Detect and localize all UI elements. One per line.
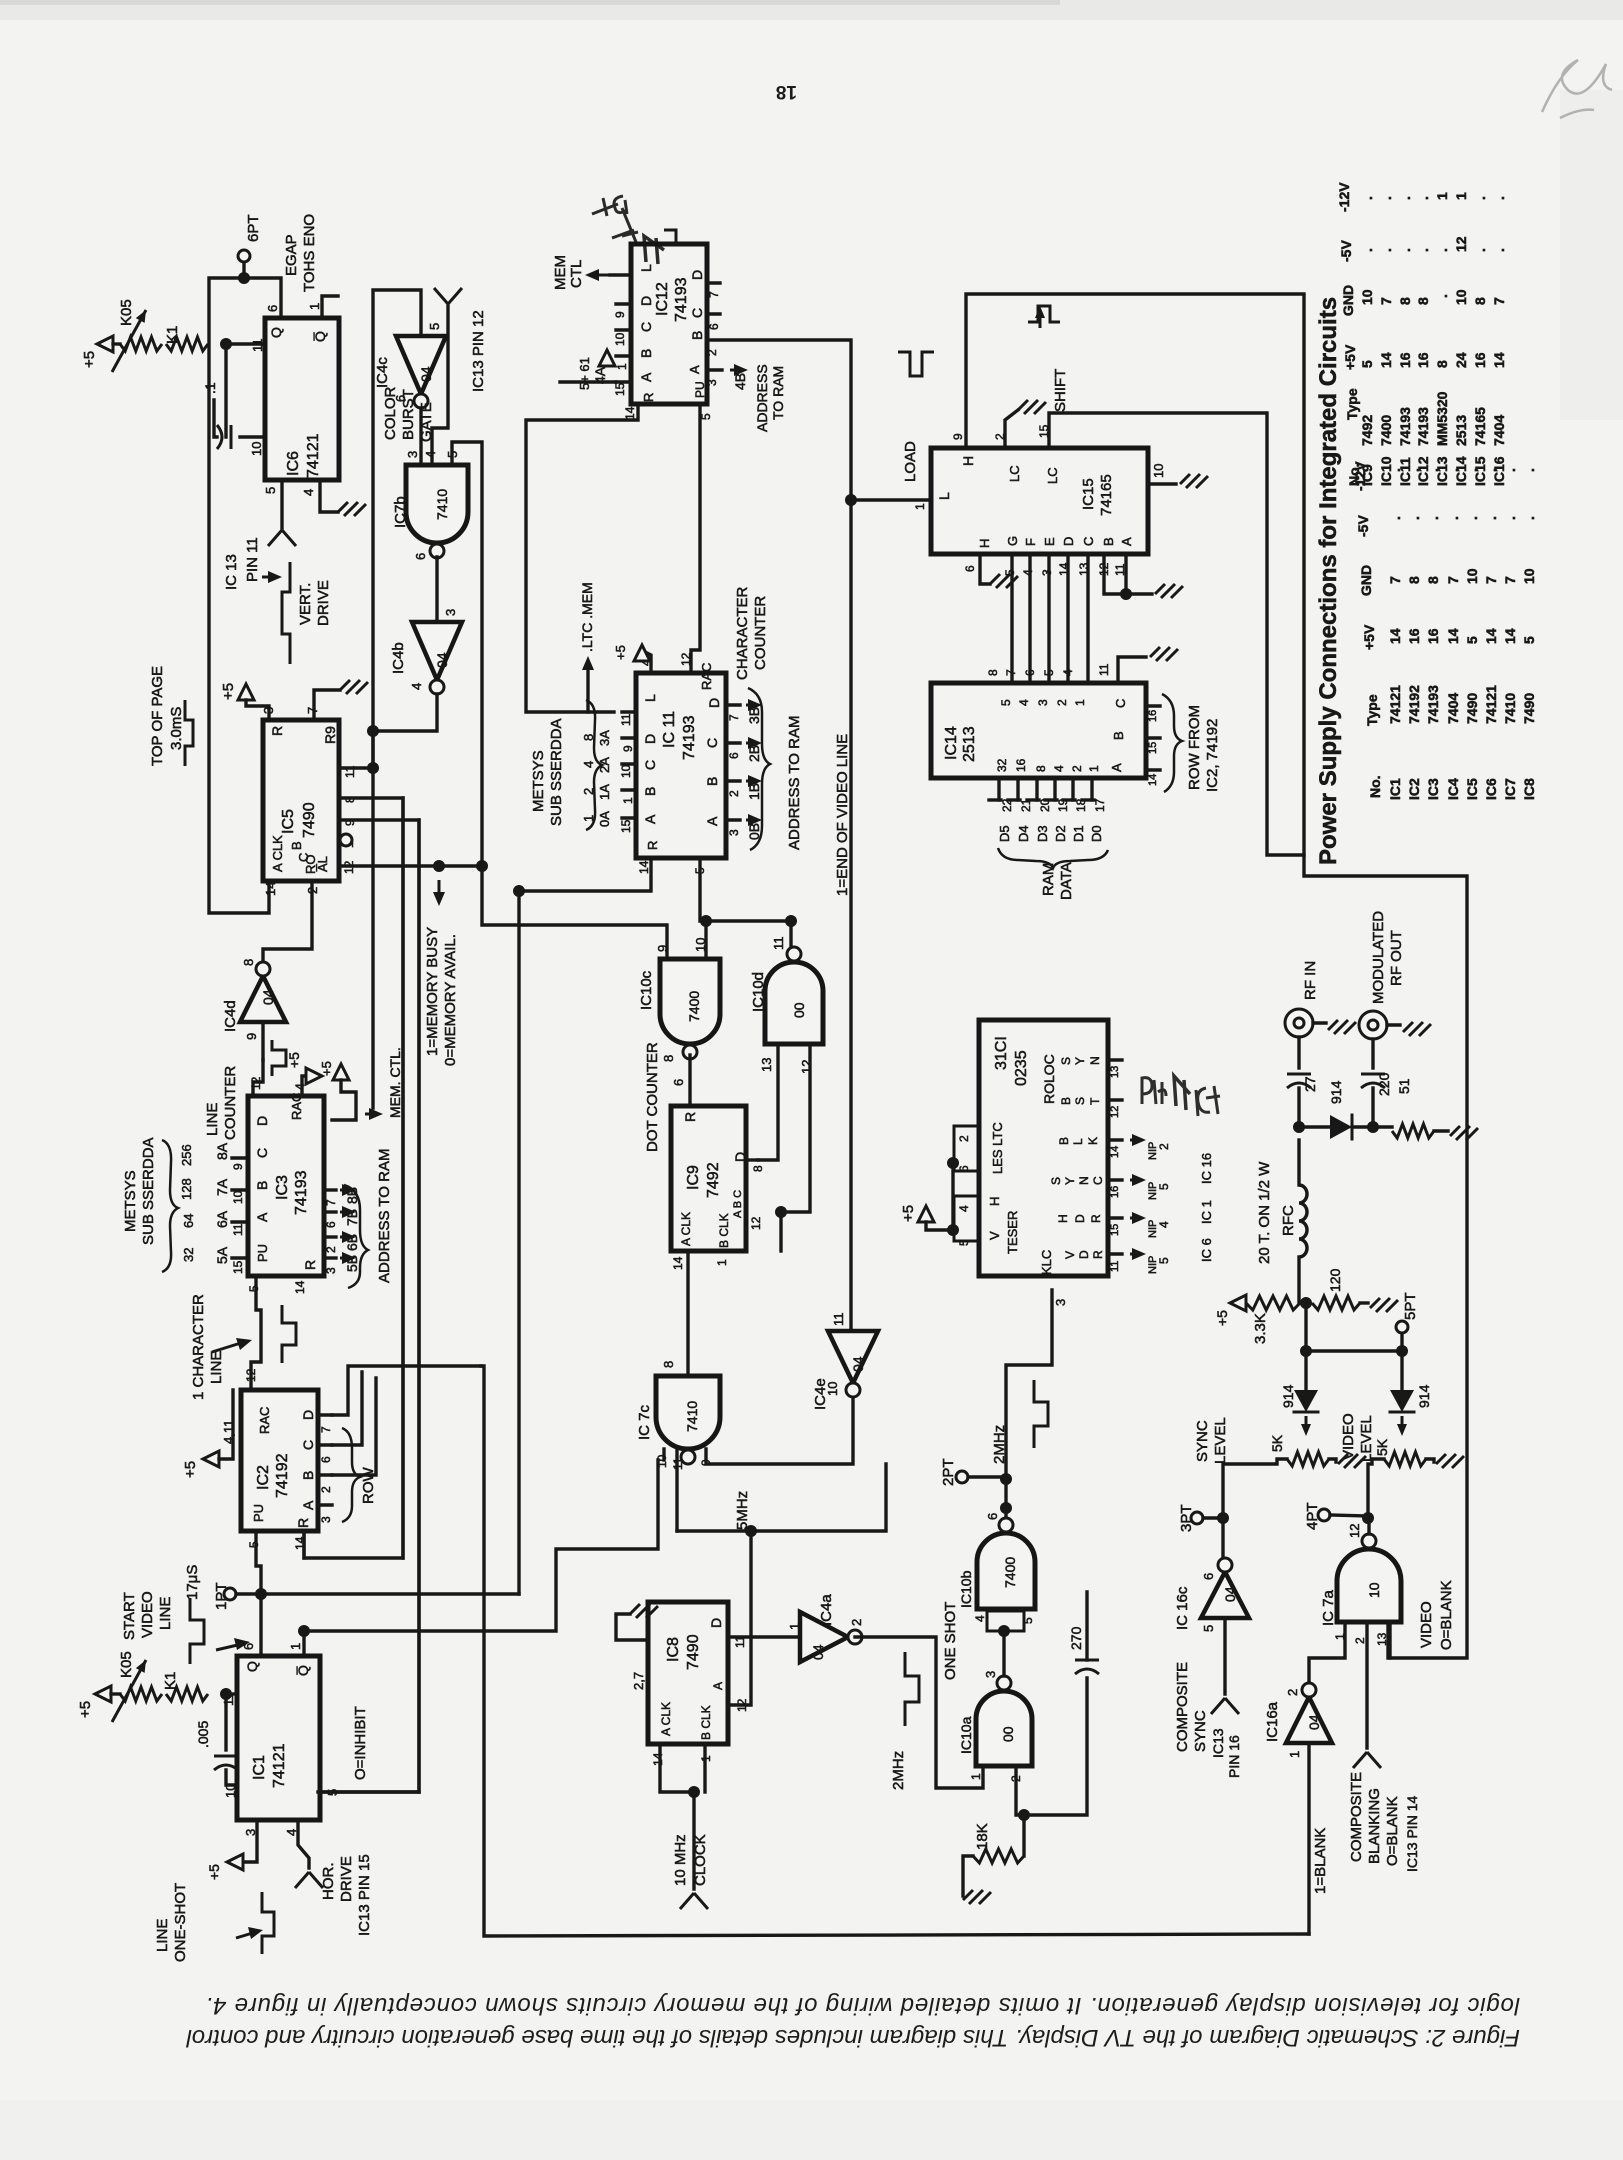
svg-text:9: 9	[231, 1163, 245, 1170]
svg-text:A̅L: A̅L	[315, 856, 330, 872]
svg-text:A: A	[1119, 537, 1134, 546]
inverter IC4d	[240, 976, 286, 1022]
svg-text:10: 10	[1366, 1582, 1382, 1598]
svg-text:IC1: IC1	[1387, 778, 1403, 800]
svg-text:7: 7	[305, 707, 320, 714]
svg-text:2: 2	[727, 790, 741, 797]
svg-text:14: 14	[1445, 628, 1461, 644]
brace RAM DATA	[998, 848, 1108, 868]
svg-text:51: 51	[1396, 1078, 1412, 1094]
svg-text:11: 11	[1097, 663, 1111, 676]
svg-text:13: 13	[759, 1058, 774, 1072]
svg-text:5MHz: 5MHz	[734, 1491, 751, 1530]
svg-text:5: 5	[247, 1541, 261, 1548]
test point TP1	[224, 1588, 236, 1600]
svg-text:10: 10	[249, 442, 264, 456]
svg-text:IC5: IC5	[1464, 778, 1480, 800]
svg-text:6: 6	[707, 323, 721, 330]
svg-text:B: B	[300, 1471, 316, 1480]
svg-text:A: A	[254, 1212, 270, 1222]
svg-text:1=BLANK: 1=BLANK	[1312, 1828, 1329, 1894]
svg-text:5B: 5B	[344, 1255, 360, 1272]
IC2 right pins 7 6 2 3 (ROW outputs)	[318, 1413, 332, 1416]
arrow start video line	[216, 1644, 242, 1650]
wire junction down to IC10c pin 10	[704, 921, 707, 959]
svg-text:74193: 74193	[1415, 407, 1431, 446]
svg-text:6: 6	[957, 1165, 971, 1172]
+5 stub near IC2/IC9 area	[333, 1064, 349, 1080]
svg-text:HOR.: HOR.	[320, 1863, 337, 1901]
svg-text:CTL: CTL	[568, 260, 585, 288]
svg-text:.: .	[1445, 516, 1461, 520]
inverter IC4c	[396, 336, 446, 394]
svg-text:B: B	[1057, 1137, 1071, 1145]
svg-text:8: 8	[1472, 297, 1488, 305]
svg-text:12: 12	[249, 1076, 263, 1090]
svg-text:COMPOSITE: COMPOSITE	[1348, 1772, 1365, 1862]
wire IC15 pin 9 up to LOAD line	[966, 294, 1467, 1658]
IC8 pin 12 jog wire	[728, 1637, 751, 1705]
svg-text:D: D	[1077, 1250, 1091, 1259]
brace address to RAM (IC3)	[344, 1185, 368, 1288]
svg-text:TO RAM: TO RAM	[770, 366, 786, 420]
svg-text:D: D	[642, 734, 658, 744]
resistor 1K (bottom)	[166, 1687, 208, 1701]
svg-text:.: .	[1464, 516, 1480, 520]
svg-text:IC3: IC3	[274, 1175, 291, 1200]
waveform 2MHz (left)	[905, 1652, 919, 1726]
inverter IC4a	[800, 1612, 848, 1662]
svg-text:74193: 74193	[681, 715, 698, 760]
ground loop at IC8 pins 2,7	[616, 1614, 648, 1640]
svg-text:16: 16	[1472, 352, 1488, 368]
svg-text:+5: +5	[182, 1461, 199, 1478]
svg-text:K: K	[1086, 1137, 1100, 1145]
svg-text:914: 914	[1416, 1384, 1432, 1408]
svg-text:14: 14	[1109, 1146, 1121, 1158]
svg-text:C: C	[689, 308, 705, 318]
wire pin12 bus to x=482 and down to IC10c pin 9	[439, 864, 482, 867]
svg-text:6: 6	[241, 1643, 256, 1650]
IC7a output wire to TP4 junction	[1367, 1518, 1370, 1534]
svg-text:14: 14	[293, 1280, 307, 1294]
svg-text:1: 1	[307, 303, 322, 310]
svg-text:IC7: IC7	[1502, 778, 1518, 800]
junction dot IC1 pin 11	[220, 1688, 232, 1700]
test point TP3	[1191, 1512, 1203, 1524]
+5 at IC11 pin 4	[645, 652, 651, 673]
svg-text:LINE: LINE	[157, 1597, 174, 1630]
svg-text:7400: 7400	[1002, 1557, 1018, 1588]
svg-text:12: 12	[1453, 236, 1469, 252]
waveform line one-shot with arrow	[262, 1892, 274, 1954]
svg-text:A B C: A B C	[732, 1190, 744, 1218]
svg-text:Q: Q	[244, 1661, 260, 1672]
svg-text:00: 00	[791, 1002, 807, 1018]
svg-text:RF OUT: RF OUT	[1388, 930, 1405, 986]
svg-text:1PT: 1PT	[213, 1582, 230, 1610]
svg-text:16: 16	[1406, 628, 1422, 644]
svg-text:logic for television display g: logic for television display generation.…	[205, 1992, 1520, 2019]
svg-text:D: D	[638, 296, 654, 306]
svg-text:2: 2	[993, 433, 1007, 440]
shift register IC15 74165	[931, 448, 1148, 554]
svg-text:1: 1	[1434, 192, 1450, 200]
svg-text:IC 7a: IC 7a	[1320, 1589, 1337, 1626]
svg-text:S: S	[1073, 1097, 1087, 1105]
IC12 pin 15 long wire left	[560, 380, 616, 383]
svg-text:9: 9	[951, 433, 965, 440]
svg-text:DRIVE: DRIVE	[338, 1856, 355, 1902]
svg-text:12: 12	[799, 1060, 814, 1074]
svg-text:.: .	[1425, 468, 1441, 472]
svg-text:5: 5	[699, 413, 713, 420]
wire IC15 pin 1 (L) to bus x=851	[851, 498, 931, 501]
svg-text:Q̅: Q̅	[295, 1665, 311, 1676]
IC12 pin 2 wire right then down (1=END OF VIDEO LINE bus)	[707, 340, 851, 1331]
waveform 1 character line	[282, 1305, 296, 1363]
svg-text:IC 6: IC 6	[1199, 1238, 1214, 1262]
+5 supply arrow (bottom left)	[95, 1686, 111, 1702]
svg-text:GATE: GATE	[418, 402, 435, 442]
svg-text:5A: 5A	[214, 1246, 230, 1264]
svg-text:H: H	[977, 539, 992, 548]
svg-text:K1: K1	[162, 1672, 179, 1690]
svg-text:3PT: 3PT	[1178, 1504, 1195, 1532]
svg-text:6: 6	[727, 752, 741, 759]
NAND IC7b 7410	[406, 465, 468, 543]
svg-text:16: 16	[1425, 628, 1441, 644]
svg-text:.: .	[1445, 468, 1461, 472]
svg-text:2MHz: 2MHz	[890, 1751, 907, 1790]
test point TP5	[1400, 1334, 1403, 1351]
capacitor 270 on feedback	[1024, 1678, 1087, 1815]
handwritten PIN 4 annotation	[1142, 1078, 1166, 1104]
brace system address bus left	[162, 1140, 178, 1272]
svg-text:LEVEL: LEVEL	[1212, 1417, 1229, 1464]
svg-text:8: 8	[1415, 297, 1431, 305]
svg-text:5: 5	[1201, 1625, 1216, 1632]
svg-text:4,11: 4,11	[221, 1420, 236, 1444]
svg-text:74121: 74121	[271, 1743, 288, 1788]
svg-text:.: .	[1521, 516, 1537, 520]
svg-text:B CLK: B CLK	[699, 1705, 713, 1740]
svg-text:Y: Y	[1073, 1057, 1087, 1065]
svg-text:15: 15	[231, 1260, 245, 1274]
svg-text:+5: +5	[1214, 1310, 1230, 1326]
svg-text:7: 7	[1483, 576, 1499, 584]
NAND IC10a 7400	[976, 1691, 1032, 1766]
svg-text:V: V	[987, 1231, 1002, 1240]
IC10a output wire up to IC10b pins 4,5 box	[1002, 1631, 1005, 1676]
svg-text:A CLK: A CLK	[679, 1212, 693, 1246]
svg-text:VIDEO: VIDEO	[139, 1591, 156, 1638]
svg-text:N: N	[1077, 1176, 1091, 1185]
svg-text:2,7: 2,7	[631, 1672, 646, 1690]
svg-text:1: 1	[1087, 765, 1101, 772]
IC16c input wire to COMPOSITE SYNC connector	[1223, 1618, 1226, 1694]
svg-text:8: 8	[1425, 576, 1441, 584]
svg-text:.: .	[1434, 248, 1450, 252]
svg-text:2: 2	[1353, 1637, 1367, 1644]
waveform 2MHz right	[1034, 1380, 1048, 1448]
svg-text:1 CHARACTER: 1 CHARACTER	[190, 1294, 207, 1400]
svg-text:D1: D1	[1071, 825, 1086, 842]
test point TP6	[242, 263, 245, 278]
svg-text:METSYS: METSYS	[530, 750, 547, 812]
svg-text:IC1: IC1	[251, 1755, 268, 1780]
svg-text:74193: 74193	[673, 277, 690, 322]
wire junction to IC10d pin 11	[789, 921, 792, 955]
junction dots RF mixer	[1293, 1121, 1305, 1133]
IC12 left pin stubs	[616, 302, 631, 305]
svg-text:IC8: IC8	[1521, 778, 1537, 800]
label MEM CTL with arrow (IC12 pin 11)	[585, 269, 627, 281]
svg-text:-5V: -5V	[1355, 515, 1371, 537]
row counter IC2 74192	[241, 1390, 318, 1531]
NAND IC10c 7400	[660, 959, 720, 1044]
svg-text:IC2, 74192: IC2, 74192	[1204, 719, 1221, 792]
svg-text:8: 8	[581, 734, 596, 741]
svg-text:RF IN: RF IN	[1302, 961, 1319, 1000]
svg-text:7410: 7410	[684, 1401, 700, 1432]
svg-text:MEM: MEM	[552, 255, 569, 290]
svg-text:10: 10	[693, 938, 708, 952]
svg-text:IC8: IC8	[665, 1637, 682, 1662]
svg-text:9: 9	[613, 311, 627, 318]
svg-text:18K: 18K	[974, 1823, 991, 1850]
IC12 right pins	[707, 281, 720, 284]
svg-text:9: 9	[621, 745, 635, 752]
svg-text:D4: D4	[1016, 825, 1031, 842]
svg-text:11: 11	[1109, 1261, 1121, 1272]
svg-text:+5: +5	[286, 1052, 302, 1068]
IC5 pin 9 wire to long bus x=419	[318, 820, 419, 1792]
svg-text:14: 14	[263, 882, 278, 896]
svg-text:12: 12	[749, 1216, 763, 1230]
wire junction down to diodes	[1304, 1303, 1307, 1351]
svg-text:Power Supply Connections for I: Power Supply Connections for Integrated …	[1315, 297, 1342, 865]
svg-text:11: 11	[221, 1693, 236, 1707]
IC10b pins 4/5 tie box	[987, 1611, 1024, 1631]
svg-text:11: 11	[619, 713, 633, 726]
svg-text:C: C	[254, 1148, 270, 1158]
one-shot IC1 74121	[237, 1656, 320, 1820]
svg-text:74193: 74193	[1397, 407, 1413, 446]
svg-text:1=MEMORY BUSY: 1=MEMORY BUSY	[424, 927, 441, 1056]
svg-text:1=END OF VIDEO LINE: 1=END OF VIDEO LINE	[834, 734, 851, 896]
svg-text:IC3: IC3	[1425, 778, 1441, 800]
svg-text:2B: 2B	[746, 745, 762, 762]
svg-text:D: D	[708, 1618, 724, 1628]
svg-text:16: 16	[1109, 1186, 1121, 1198]
IC4b output wire joining bus x=373	[373, 694, 437, 731]
svg-text:15: 15	[613, 382, 627, 396]
svg-text:1: 1	[581, 815, 596, 822]
svg-text:6: 6	[265, 305, 280, 312]
svg-text:ROLOC: ROLOC	[1041, 1054, 1057, 1104]
svg-text:SYNC: SYNC	[1194, 1420, 1211, 1462]
vertical bus x=373 (IC5 D to MEM CTL arrow)	[371, 731, 374, 1108]
svg-text:74193: 74193	[293, 1170, 310, 1215]
svg-text:4: 4	[973, 1615, 987, 1622]
svg-text:2513: 2513	[961, 726, 978, 762]
IC10d input wires down	[758, 1044, 778, 1160]
svg-text:IC16a: IC16a	[1264, 1701, 1281, 1742]
svg-text:7: 7	[1378, 297, 1394, 305]
svg-text:A: A	[687, 365, 702, 374]
svg-text:04: 04	[1306, 1714, 1322, 1730]
svg-text:+5: +5	[220, 683, 237, 700]
svg-text:5: 5	[445, 451, 460, 458]
svg-text:R: R	[682, 1112, 698, 1122]
connector fork IC13 PIN 12	[434, 288, 462, 304]
IC13 pin boxes 2/6 and 4/5	[954, 1126, 979, 1171]
svg-text:15: 15	[619, 819, 633, 833]
wire 5MHz junction down to IC8 pin D jog	[749, 1531, 752, 1637]
svg-text:ROW FROM: ROW FROM	[1186, 705, 1203, 790]
svg-text:7492: 7492	[1359, 415, 1375, 446]
svg-text:74121: 74121	[1387, 685, 1403, 724]
svg-text:-12V: -12V	[1336, 182, 1352, 212]
svg-text:IC10c: IC10c	[638, 970, 655, 1010]
svg-text:A: A	[711, 1682, 725, 1690]
wire TP2 junction up to IC13 CLK pin 3	[1006, 1290, 1052, 1479]
svg-text:6: 6	[324, 1221, 338, 1228]
svg-text:TOP OF PAGE: TOP OF PAGE	[149, 666, 166, 766]
svg-text:H: H	[1056, 1214, 1070, 1223]
svg-text:1: 1	[913, 503, 927, 510]
svg-text:K1: K1	[164, 326, 181, 344]
svg-text:D: D	[1073, 1214, 1087, 1223]
svg-text:5: 5	[427, 323, 442, 330]
wire RFC to 3.3K junction	[1297, 1257, 1300, 1303]
5MHz junction and label	[745, 1525, 757, 1537]
svg-text:KLC: KLC	[1039, 1250, 1054, 1275]
svg-text:8: 8	[751, 1165, 765, 1172]
IC5 pin 2 wire down to inverter IC4d	[263, 881, 312, 962]
svg-text:15: 15	[1147, 742, 1159, 754]
svg-text:IC5: IC5	[280, 809, 297, 834]
wire IC12 pin 11 stub	[610, 273, 631, 276]
svg-text:BLANKING: BLANKING	[1366, 1788, 1383, 1864]
NAND IC10b 7400	[977, 1533, 1035, 1609]
svg-text:74192: 74192	[274, 1453, 291, 1498]
svg-text:LEVEL: LEVEL	[1358, 1415, 1375, 1462]
svg-text:F: F	[1023, 538, 1038, 546]
waveform top of page pulse	[185, 700, 193, 766]
IC1 pin 3 wire to +5	[243, 1820, 257, 1862]
IC12 pin 14 wire to bus x=526 to IC11 pin L	[526, 404, 638, 712]
ground at RF OUT	[1387, 1023, 1400, 1026]
svg-text:IC12: IC12	[654, 282, 671, 316]
svg-text:64: 64	[181, 1214, 196, 1228]
IC7c pin 10 wire down-left (retrigger)	[662, 1449, 665, 1460]
svg-text:7: 7	[1004, 669, 1018, 676]
svg-text:ADDRESS TO RAM: ADDRESS TO RAM	[376, 1149, 393, 1283]
svg-text:O=BLANK: O=BLANK	[1384, 1796, 1401, 1866]
svg-text:4: 4	[1157, 1221, 1171, 1228]
IC6 pin 5 wire to VERT DRIVE connector	[280, 480, 283, 528]
svg-text:IC6: IC6	[285, 451, 302, 476]
svg-text:1: 1	[1287, 1751, 1302, 1758]
svg-text:C: C	[1113, 699, 1128, 708]
svg-text:04: 04	[850, 1356, 866, 1372]
svg-text:2: 2	[1055, 699, 1069, 706]
svg-text:6: 6	[1201, 1573, 1216, 1580]
data wires IC15 to IC14	[1010, 554, 1013, 683]
brace address to RAM (IC11)	[748, 688, 770, 850]
capacitor .005	[224, 1694, 227, 1750]
svg-text:31CI: 31CI	[993, 1036, 1010, 1070]
svg-text:5: 5	[1021, 1617, 1035, 1624]
svg-text:SHIFT: SHIFT	[1052, 369, 1069, 412]
svg-text:IC 7c: IC 7c	[636, 1404, 653, 1440]
svg-text:.: .	[1483, 516, 1499, 520]
long bus x=419 continues (O=INHIBIT)	[417, 820, 420, 1792]
+5 arrow IC2 pins 4,11	[203, 1451, 219, 1467]
svg-text:8: 8	[986, 669, 1000, 676]
svg-text:6: 6	[1023, 669, 1037, 676]
svg-text:D2: D2	[1053, 825, 1068, 842]
svg-text:7: 7	[1387, 576, 1403, 584]
IC3 right pins B5-B8 address to RAM arrows	[324, 1188, 336, 1191]
svg-text:3A: 3A	[597, 730, 612, 746]
potentiometer 50K (vertical-page resistor with diagonal arrow)	[120, 337, 162, 351]
svg-text:.: .	[1415, 248, 1431, 252]
pot 5K video level	[1384, 1452, 1426, 1466]
svg-text:R: R	[645, 841, 660, 850]
svg-text:IC 13: IC 13	[223, 554, 240, 590]
svg-text:10: 10	[613, 332, 627, 346]
svg-text:5: 5	[1157, 1183, 1171, 1190]
svg-text:.: .	[1425, 516, 1441, 520]
svg-text:74121: 74121	[305, 433, 322, 478]
svg-text:11: 11	[831, 1313, 846, 1327]
wire TP1 junction down to IC1 pin 6	[259, 1594, 262, 1656]
svg-text:+5: +5	[77, 1701, 94, 1718]
svg-text:2: 2	[581, 788, 596, 795]
svg-text:IC10a: IC10a	[958, 1716, 974, 1754]
svg-text:3: 3	[319, 1516, 333, 1523]
IC14 pin 11 wire to ground	[1118, 657, 1146, 683]
wire IC4d to IC2 pin 12	[253, 1060, 263, 1096]
svg-text:B: B	[704, 777, 720, 786]
ground at RF IN	[1313, 1021, 1326, 1024]
svg-text:0235: 0235	[1013, 1050, 1030, 1086]
svg-text:R: R	[295, 1518, 311, 1528]
SHIFT line from IC15 pin 15 to LOAD bus corner	[1049, 413, 1304, 855]
svg-text:D: D	[689, 270, 705, 280]
svg-text:L: L	[936, 492, 952, 500]
svg-text:7: 7	[324, 1199, 338, 1206]
svg-text:2: 2	[319, 1486, 333, 1493]
svg-text:.LTC .MEM: .LTC .MEM	[579, 582, 595, 652]
svg-text:5: 5	[1464, 636, 1480, 644]
svg-text:-12V: -12V	[1352, 461, 1368, 491]
svg-text:3: 3	[324, 1267, 338, 1274]
svg-text:9: 9	[244, 1033, 259, 1040]
svg-text:14: 14	[671, 1256, 685, 1270]
svg-text:Q̅: Q̅	[312, 331, 328, 342]
resistor 1K	[166, 337, 208, 351]
IC4c output wire to IC7b pin 3	[419, 408, 422, 465]
svg-text:1: 1	[715, 1259, 729, 1266]
svg-text:14: 14	[1483, 628, 1499, 644]
svg-text:VERT.: VERT.	[297, 583, 314, 625]
svg-text:7400: 7400	[1378, 415, 1394, 446]
up/down counter IC3 74193	[248, 1096, 324, 1276]
